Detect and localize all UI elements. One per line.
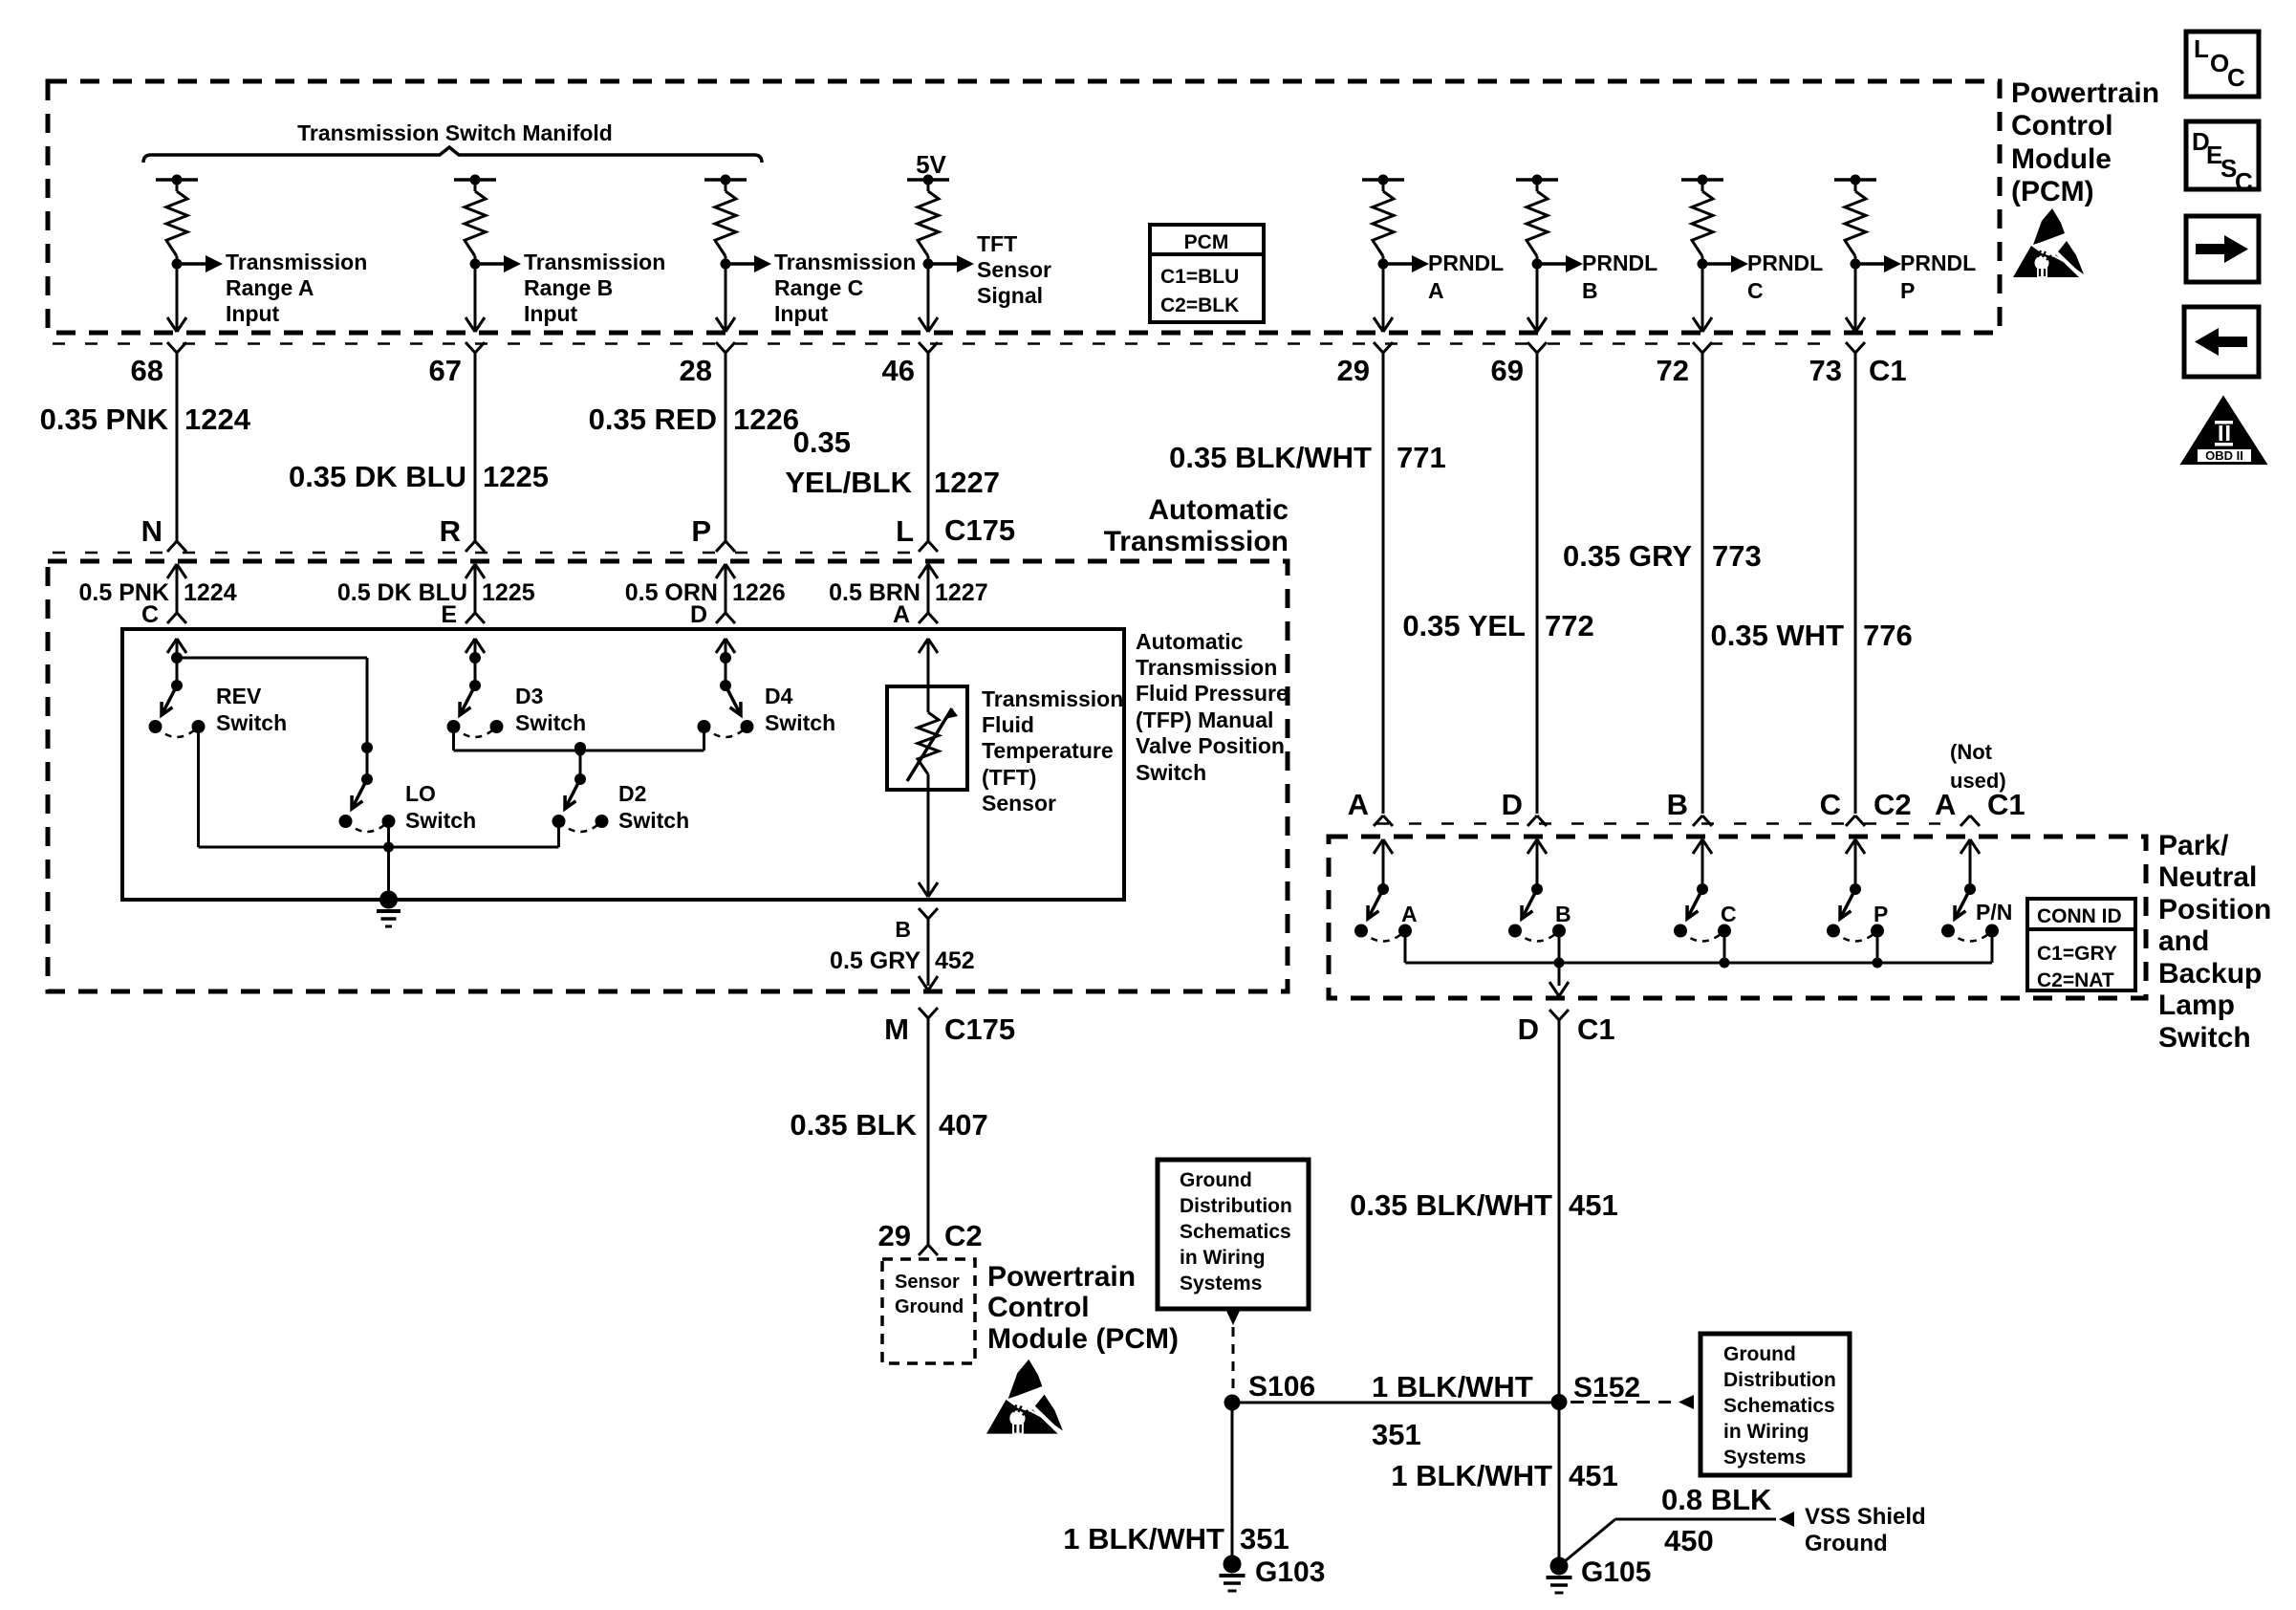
ground (TFP switch case): [377, 891, 401, 927]
label Park/Neutral Position and Backup Lamp Switch: [2158, 830, 2271, 1054]
wire D3/D4 bus: [454, 746, 704, 756]
svg-text:R: R: [440, 514, 461, 548]
svg-text:351: 351: [1372, 1418, 1421, 1451]
resistor PRNDL P (PCM pull-up) and input arrow: [1834, 175, 1976, 333]
svg-text:68: 68: [131, 354, 163, 387]
svg-text:used): used): [1950, 769, 2006, 793]
svg-text:C: C: [1747, 278, 1764, 303]
label 0.5 PNK 1224: [79, 579, 237, 606]
svg-text:5V: 5V: [916, 150, 946, 179]
wire circuit 772 (PCM to PNP switch): [1536, 353, 1539, 814]
thermistor TFT sensor: [907, 639, 958, 897]
svg-text:Automatic: Automatic: [1148, 494, 1289, 526]
resistor Transmission Range A Input (PCM pull-up) and input arrow: [156, 175, 367, 333]
svg-text:Ground: Ground: [1723, 1343, 1796, 1365]
svg-text:P: P: [1900, 278, 1915, 303]
connector C2 pin 29: [878, 1219, 983, 1255]
svg-text:351: 351: [1240, 1522, 1289, 1556]
connector C175 pin P: [691, 514, 711, 548]
svg-text:0.35 DK BLU: 0.35 DK BLU: [289, 460, 466, 493]
svg-text:1225: 1225: [483, 460, 549, 493]
connector C1 label (PCM): [1869, 354, 1907, 387]
svg-text:1 BLK/WHT: 1 BLK/WHT: [1391, 1459, 1552, 1492]
connector pin B (PNP): [1667, 788, 1712, 826]
Ground Distribution reference box 2: [1700, 1334, 1850, 1475]
svg-text:Transmission: Transmission: [774, 250, 916, 274]
svg-text:Switch: Switch: [765, 710, 835, 735]
svg-text:Transmission: Transmission: [1136, 655, 1277, 680]
switch PNP position C: [1674, 839, 1737, 963]
svg-text:1 BLK/WHT: 1 BLK/WHT: [1063, 1522, 1224, 1556]
svg-text:B: B: [1555, 902, 1571, 926]
svg-text:A: A: [1428, 278, 1444, 303]
svg-text:29: 29: [1337, 354, 1370, 387]
svg-text:29: 29: [878, 1219, 911, 1252]
LOC reference box: [2186, 32, 2259, 97]
svg-text:0.35 RED: 0.35 RED: [589, 402, 717, 436]
wire circuit 450 (0.8 BLK): [1559, 1512, 1794, 1566]
svg-text:Valve Position: Valve Position: [1136, 733, 1285, 758]
switch D2: [552, 742, 690, 833]
svg-text:C2=BLK: C2=BLK: [1160, 294, 1239, 316]
wire circuit 1225 (0.5 DK BLU) into TFP switch: [466, 564, 485, 623]
label 1 BLK/WHT 351 vertical: [1063, 1522, 1289, 1556]
svg-text:REV: REV: [216, 684, 262, 708]
wire circuit 351 (S106 to S152): [1232, 1402, 1559, 1404]
svg-text:PRNDL: PRNDL: [1747, 250, 1823, 275]
Park/Neutral switch dashed box: [1329, 837, 2146, 998]
label 0.5 DK BLU 1225: [337, 579, 535, 606]
svg-text:0.5 GRY: 0.5 GRY: [830, 947, 921, 974]
svg-text:(PCM): (PCM): [2011, 176, 2094, 207]
svg-text:28: 28: [680, 354, 712, 387]
wire circuit 451 lower: [1558, 1403, 1561, 1567]
label 0.35 BLK 407: [790, 1108, 987, 1142]
svg-text:773: 773: [1712, 539, 1762, 573]
svg-text:Ground: Ground: [1180, 1169, 1252, 1191]
svg-text:C175: C175: [944, 513, 1015, 547]
connector C175 pin R: [440, 514, 461, 548]
switch LO: [339, 742, 477, 833]
connector pin 67: [429, 342, 485, 387]
wire circuit 771 (PCM to PNP switch): [1382, 353, 1385, 814]
wire D3 left contact to D2 bus: [452, 727, 455, 751]
resistor TFT Sensor Signal (PCM pull-up) and input arrow: [907, 175, 1051, 333]
Automatic Transmission dashed box: [48, 561, 1288, 991]
label 0.35 WHT 776: [1710, 619, 1912, 652]
svg-text:D: D: [690, 601, 707, 628]
DESC reference box: [2186, 121, 2259, 196]
svg-text:1 BLK/WHT: 1 BLK/WHT: [1372, 1370, 1533, 1403]
wire circuit 773 (PCM to PNP switch): [1701, 353, 1704, 814]
wire circuit 776 (PCM to PNP switch): [1854, 353, 1857, 814]
wire circuit 1227 (PCM to C175): [919, 353, 938, 552]
svg-text:in Wiring: in Wiring: [1723, 1421, 1809, 1443]
svg-text:G103: G103: [1255, 1556, 1325, 1588]
label Powertrain Control Module (PCM) lower: [987, 1261, 1179, 1355]
label Automatic Transmission: [1104, 494, 1289, 557]
switch REV: [149, 639, 288, 737]
label 0.35 DK BLU 1225: [289, 460, 549, 493]
svg-text:Park/: Park/: [2158, 830, 2229, 861]
connector C1/C2 thin dashed line (PCM connector face): [53, 342, 1840, 345]
svg-text:Systems: Systems: [1180, 1273, 1262, 1295]
svg-text:C2: C2: [1874, 788, 1912, 821]
svg-text:C2=NAT: C2=NAT: [2037, 969, 2114, 991]
switch PNP position B: [1508, 839, 1571, 963]
svg-text:and: and: [2158, 925, 2209, 957]
svg-text:Module (PCM): Module (PCM): [987, 1323, 1179, 1355]
svg-text:Powertrain: Powertrain: [2011, 77, 2159, 109]
connector pin C (PNP): [1820, 788, 1865, 826]
svg-text:D3: D3: [515, 684, 543, 708]
wire circuit 1227 (0.5 BRN) into TFP switch: [919, 564, 938, 623]
svg-text:Switch: Switch: [216, 710, 287, 735]
label 1 BLK/WHT 451: [1391, 1459, 1618, 1492]
svg-text:Lamp: Lamp: [2158, 990, 2235, 1021]
svg-text:67: 67: [429, 354, 462, 387]
svg-text:0.35 BLK/WHT: 0.35 BLK/WHT: [1350, 1188, 1552, 1222]
svg-text:Backup: Backup: [2158, 958, 2262, 990]
svg-text:0.8 BLK: 0.8 BLK: [1661, 1483, 1772, 1516]
svg-text:A: A: [1348, 788, 1369, 821]
switch D4: [698, 639, 836, 737]
svg-text:YEL/BLK: YEL/BLK: [785, 466, 912, 499]
label 0.35 YEL 772: [1402, 609, 1593, 642]
connector C175 thin dashed line: [53, 552, 912, 555]
wire TFP internal ground bus: [199, 842, 559, 853]
svg-text:C: C: [141, 601, 159, 628]
svg-text:46: 46: [882, 354, 915, 387]
svg-text:Control: Control: [2011, 110, 2113, 141]
TFP connector pin D: [690, 601, 707, 628]
svg-text:Switch: Switch: [618, 808, 689, 833]
svg-text:PRNDL: PRNDL: [1900, 250, 1976, 275]
svg-text:0.35 GRY: 0.35 GRY: [1563, 539, 1692, 573]
Ground Distribution reference box 1: [1158, 1160, 1309, 1309]
label 0.5 GRY 452: [830, 947, 975, 974]
svg-text:Ground: Ground: [1805, 1531, 1888, 1556]
connector pin 68: [131, 342, 186, 387]
svg-text:S106: S106: [1248, 1371, 1315, 1403]
svg-text:C175: C175: [944, 1012, 1015, 1046]
wire circuit 1226 (PCM to C175): [716, 353, 735, 552]
svg-text:0.35 PNK: 0.35 PNK: [40, 402, 169, 436]
svg-text:B: B: [1582, 278, 1598, 303]
svg-text:Switch: Switch: [1136, 760, 1206, 785]
svg-text:Signal: Signal: [977, 283, 1043, 308]
label 0.5 BRN 1227: [829, 579, 988, 606]
svg-text:776: 776: [1863, 619, 1913, 652]
svg-text:73: 73: [1809, 354, 1842, 387]
svg-text:C1: C1: [1987, 788, 2025, 821]
connector pin 28: [680, 342, 735, 387]
svg-text:Fluid Pressure: Fluid Pressure: [1136, 681, 1289, 706]
svg-text:Switch: Switch: [2158, 1022, 2251, 1054]
right arrow reference box: [2186, 216, 2259, 282]
svg-text:Transmission: Transmission: [982, 686, 1123, 711]
svg-text:Transmission: Transmission: [524, 250, 665, 274]
connector C1 pin A not used: [1935, 740, 2025, 826]
svg-text:OBD II: OBD II: [2205, 448, 2243, 463]
svg-text:407: 407: [939, 1108, 988, 1142]
svg-text:A: A: [1935, 788, 1956, 821]
svg-text:Switch: Switch: [405, 808, 476, 833]
svg-text:Powertrain: Powertrain: [987, 1261, 1136, 1293]
connector pin 46: [882, 342, 938, 387]
wire PNP output to pin D: [1549, 963, 1569, 996]
svg-text:PRNDL: PRNDL: [1428, 250, 1504, 275]
wire reference arrow to S106: [1225, 1309, 1241, 1392]
TFP manual valve position switch box: [122, 629, 1124, 900]
svg-text:P: P: [691, 514, 711, 548]
PCM module dashed box: [48, 81, 2000, 333]
svg-text:0.35 BLK: 0.35 BLK: [790, 1108, 917, 1142]
wire circuit 1224 (PCM to C175): [167, 353, 186, 552]
svg-text:G105: G105: [1581, 1556, 1651, 1588]
svg-text:(TFT): (TFT): [982, 765, 1036, 790]
svg-text:Schematics: Schematics: [1723, 1395, 1835, 1417]
svg-text:TFT: TFT: [977, 231, 1017, 256]
connector pin D (PNP): [1502, 788, 1547, 826]
wire PNP output bus: [1405, 958, 1992, 968]
svg-text:Transmission Switch Manifold: Transmission Switch Manifold: [297, 120, 613, 145]
svg-text:Range B: Range B: [524, 275, 613, 300]
label 0.35 BLK/WHT 771: [1169, 441, 1446, 474]
connector C175 pin M: [884, 1008, 1015, 1046]
svg-text:M: M: [884, 1012, 909, 1046]
wire circuit 351 (S106 to G103): [1231, 1403, 1234, 1564]
svg-text:C: C: [2227, 63, 2245, 92]
svg-text:1227: 1227: [934, 466, 1000, 499]
CONN ID legend box: [2027, 899, 2135, 991]
svg-text:S152: S152: [1573, 1372, 1640, 1403]
svg-text:C1=GRY: C1=GRY: [2037, 943, 2117, 965]
svg-text:0.35 BLK/WHT: 0.35 BLK/WHT: [1169, 441, 1372, 474]
wire circuit 1224 (0.5 PNK) into TFP switch: [167, 564, 186, 623]
svg-text:771: 771: [1397, 441, 1446, 474]
svg-text:Input: Input: [524, 301, 578, 326]
resistor Transmission Range C Input (PCM pull-up) and input arrow: [704, 175, 916, 333]
svg-text:Ground: Ground: [895, 1296, 964, 1317]
svg-text:69: 69: [1491, 354, 1524, 387]
svg-text:PCM: PCM: [1184, 231, 1229, 253]
svg-text:D4: D4: [765, 684, 793, 708]
svg-text:Fluid: Fluid: [982, 712, 1034, 737]
svg-text:0.35 YEL: 0.35 YEL: [1402, 609, 1526, 642]
svg-text:(Not: (Not: [1950, 740, 1993, 764]
connector C175 pin N: [141, 514, 162, 548]
svg-text:1226: 1226: [732, 579, 786, 606]
splice S106: [1224, 1371, 1316, 1411]
svg-text:PRNDL: PRNDL: [1582, 250, 1657, 275]
label VSS Shield Ground: [1805, 1504, 1926, 1556]
wire D4 left contact to bus: [703, 727, 705, 751]
connector C175 pin L: [896, 514, 914, 548]
connector pin A (PNP): [1348, 788, 1393, 826]
Sensor Ground dashed box: [882, 1259, 975, 1363]
label 0.5 ORN 1226: [625, 579, 786, 606]
svg-text:C: C: [1820, 788, 1841, 821]
label Transmission Fluid Temperature (TFT) Sensor: [982, 686, 1123, 816]
svg-text:450: 450: [1664, 1524, 1714, 1557]
svg-text:1224: 1224: [184, 402, 251, 436]
wire REV feed to LO switch: [177, 658, 367, 748]
connector C1/C2 thin dashed line (PNP switch): [1376, 822, 1940, 825]
svg-text:in Wiring: in Wiring: [1180, 1247, 1266, 1269]
svg-text:1225: 1225: [482, 579, 535, 606]
connector C2 label (PNP): [1874, 788, 1912, 821]
label 0.35 PNK 1224: [40, 402, 251, 436]
svg-text:Input: Input: [226, 301, 280, 326]
svg-text:C1: C1: [1869, 354, 1907, 387]
wire D2 left contact to ground bus: [557, 821, 560, 847]
label 0.35 RED 1226: [589, 402, 799, 436]
switch PNP position A: [1354, 839, 1418, 963]
ground G103: [1220, 1556, 1326, 1592]
svg-text:451: 451: [1569, 1459, 1618, 1492]
switch D3: [447, 639, 587, 737]
svg-text:Neutral: Neutral: [2158, 861, 2257, 893]
svg-text:Sensor: Sensor: [895, 1272, 960, 1293]
label 0.35 YEL/BLK 1227: [785, 425, 1000, 499]
svg-text:D: D: [1502, 788, 1523, 821]
svg-text:Switch: Switch: [515, 710, 586, 735]
TFP connector pin B: [895, 908, 938, 942]
svg-text:VSS Shield: VSS Shield: [1805, 1504, 1926, 1530]
svg-text:451: 451: [1569, 1188, 1618, 1222]
label 1 BLK/WHT 351 horizontal: [1372, 1370, 1533, 1451]
svg-text:D2: D2: [618, 781, 646, 806]
label 0.35 BLK/WHT 451: [1350, 1188, 1618, 1222]
svg-text:B: B: [895, 917, 911, 942]
wire D2 feed: [579, 751, 582, 779]
svg-text:L: L: [896, 514, 914, 548]
svg-text:A: A: [1401, 902, 1418, 926]
TFP connector pin A: [893, 601, 910, 628]
wire LO right contact to ground bus: [387, 821, 390, 847]
connector pin 69: [1491, 342, 1547, 387]
svg-text:Transmission: Transmission: [226, 250, 367, 274]
label Automatic Transmission Fluid Pressure (TFP) Manual Valve Position Switch: [1136, 629, 1289, 785]
svg-text:Module: Module: [2011, 143, 2112, 175]
svg-text:Range A: Range A: [226, 275, 314, 300]
svg-text:P: P: [1874, 902, 1888, 926]
svg-text:Systems: Systems: [1723, 1447, 1806, 1469]
svg-text:N: N: [141, 514, 162, 548]
svg-text:B: B: [1667, 788, 1688, 821]
label 0.8 BLK 450: [1661, 1483, 1772, 1557]
resistor PRNDL B (PCM pull-up) and input arrow: [1516, 175, 1657, 333]
svg-text:L: L: [2194, 34, 2209, 63]
svg-text:C1: C1: [1577, 1012, 1615, 1046]
connector pin 72: [1657, 342, 1712, 387]
svg-text:Position: Position: [2158, 894, 2271, 925]
svg-text:LO: LO: [405, 781, 436, 806]
resistor PRNDL A (PCM pull-up) and input arrow: [1362, 175, 1504, 333]
label Powertrain Control Module (PCM) upper: [2011, 77, 2159, 207]
resistor Transmission Range B Input (PCM pull-up) and input arrow: [454, 175, 665, 333]
svg-text:C: C: [1721, 902, 1737, 926]
svg-text:A: A: [893, 601, 910, 628]
left arrow reference box: [2184, 307, 2259, 377]
svg-text:(TFP) Manual: (TFP) Manual: [1136, 707, 1273, 732]
svg-text:72: 72: [1657, 354, 1689, 387]
connector C1 pin D: [1518, 1010, 1615, 1046]
splice S152: [1551, 1372, 1641, 1410]
ESD symbol (upper PCM): [2013, 208, 2084, 277]
svg-text:C1=BLU: C1=BLU: [1160, 266, 1239, 288]
svg-text:Control: Control: [987, 1292, 1090, 1323]
TFP connector pin E: [441, 601, 457, 628]
ESD symbol (lower PCM): [986, 1360, 1063, 1434]
TFP connector pin C: [141, 601, 159, 628]
OBD II symbol: [2185, 401, 2263, 463]
connector pin 29: [1337, 342, 1393, 387]
svg-text:D: D: [1518, 1012, 1539, 1046]
PCM connector ID legend box: [1150, 225, 1264, 322]
svg-text:1226: 1226: [733, 402, 799, 436]
svg-text:E: E: [441, 601, 457, 628]
svg-text:C: C: [2235, 167, 2253, 196]
connector pin 73: [1809, 342, 1865, 387]
switch PNP position P: [1827, 839, 1888, 963]
svg-text:P/N: P/N: [1976, 900, 2012, 925]
wire circuit 1226 (0.5 ORN) into TFP switch: [716, 564, 735, 623]
switch PNP position P/N: [1941, 839, 2012, 963]
svg-text:1227: 1227: [935, 579, 988, 606]
wire ground drop: [387, 847, 390, 900]
svg-text:CONN ID: CONN ID: [2037, 905, 2122, 927]
svg-text:Distribution: Distribution: [1723, 1369, 1836, 1391]
wire S152 reference dashed: [1570, 1395, 1694, 1409]
svg-text:Sensor: Sensor: [977, 257, 1051, 282]
svg-text:Automatic: Automatic: [1136, 629, 1244, 654]
svg-text:C2: C2: [944, 1219, 983, 1252]
svg-text:Temperature: Temperature: [982, 738, 1114, 763]
wire circuit 407 (0.35 BLK): [927, 1018, 930, 1245]
wire circuit 1225 (PCM to C175): [466, 353, 485, 552]
connector C175 label: [944, 513, 1015, 547]
svg-text:Sensor: Sensor: [982, 791, 1056, 816]
brace Transmission Switch Manifold: [143, 120, 762, 163]
svg-text:772: 772: [1545, 609, 1594, 642]
svg-text:Input: Input: [774, 301, 829, 326]
svg-text:0.35: 0.35: [793, 425, 851, 459]
svg-text:0.35 WHT: 0.35 WHT: [1710, 619, 1844, 652]
wire circuit 451 upper: [1558, 1020, 1561, 1402]
svg-text:Distribution: Distribution: [1180, 1195, 1292, 1217]
svg-text:1224: 1224: [184, 579, 237, 606]
ground G105: [1547, 1556, 1652, 1593]
resistor PRNDL C (PCM pull-up) and input arrow: [1681, 175, 1823, 333]
svg-text:Transmission: Transmission: [1104, 526, 1289, 557]
svg-text:Schematics: Schematics: [1180, 1221, 1291, 1243]
label 0.35 GRY 773: [1563, 539, 1762, 573]
wire REV right contact to ground bus: [197, 727, 200, 847]
svg-text:Range C: Range C: [774, 275, 863, 300]
TFT sensor box: [887, 686, 967, 790]
svg-text:452: 452: [935, 947, 975, 974]
wire circuit 452 (0.5 GRY): [919, 919, 938, 990]
label 5V: [916, 150, 946, 179]
